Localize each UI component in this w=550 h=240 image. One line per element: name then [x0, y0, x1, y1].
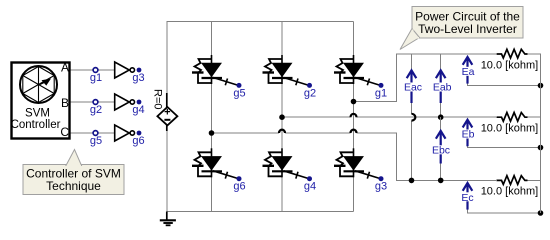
- svg-text:g6: g6: [233, 181, 245, 193]
- node Eac to phase C: [409, 178, 415, 184]
- leg 3 wire: [353, 22, 355, 212]
- phase A wire from leg 3: [354, 54, 497, 102]
- leg 2 wire: [281, 22, 283, 212]
- voltmeter Eac arrow: [407, 70, 417, 103]
- inverter gate row C: [115, 125, 135, 141]
- svg-text:Technique: Technique: [46, 179, 101, 193]
- phase B wire from leg 2: [282, 116, 496, 118]
- svg-text:Ebc: Ebc: [432, 144, 450, 156]
- node Ec return: [538, 210, 544, 216]
- svg-text:g5: g5: [233, 87, 245, 99]
- svg-text:R=0: R=0: [152, 89, 164, 110]
- voltmeter Eab wire: [440, 54, 442, 117]
- wire hop phase B over leg 3: [351, 114, 357, 117]
- bottom dc bus wire: [167, 211, 354, 213]
- node Ebc to phase C: [438, 178, 444, 184]
- switch Q3 gate g1: [334, 55, 387, 99]
- phase B wire resistor lead: [524, 116, 541, 118]
- voltmeter Ea wire: [468, 80, 542, 86]
- node g5: [90, 131, 102, 147]
- callout controller of SVM technique: [23, 150, 124, 195]
- right rail wire: [540, 54, 542, 213]
- svg-text:Controller: Controller: [11, 119, 61, 131]
- svg-text:Eb: Eb: [462, 129, 475, 141]
- svg-text:10.0 [kohm]: 10.0 [kohm]: [481, 186, 538, 198]
- svg-text:g1: g1: [375, 87, 387, 99]
- svg-text:g2: g2: [304, 87, 316, 99]
- node leg2 midpoint: [279, 114, 285, 120]
- wire hop phase C over leg 2: [279, 130, 285, 133]
- phase C wire resistor lead: [524, 179, 541, 181]
- voltmeter Eb arrow: [463, 120, 473, 147]
- voltmeter Ebc arrow: [436, 131, 446, 164]
- wire B from controller port: [70, 101, 115, 103]
- svg-text:C: C: [60, 125, 69, 139]
- node g6: [132, 131, 144, 147]
- node leg1 midpoint: [209, 130, 215, 136]
- node Ea return: [538, 83, 544, 89]
- svg-text:g6: g6: [132, 135, 144, 147]
- svg-text:Ec: Ec: [461, 192, 473, 204]
- svg-text:g4: g4: [132, 104, 144, 116]
- node g4: [132, 100, 144, 116]
- svg-text:SVM: SVM: [25, 108, 50, 120]
- svg-text:Ea: Ea: [462, 66, 475, 78]
- wire hop phase C over leg 3: [351, 130, 357, 133]
- svg-text:A: A: [61, 61, 69, 75]
- svg-text:g2: g2: [90, 104, 102, 116]
- resistor R1 10.0 kohm: [481, 49, 538, 71]
- phase C wire from leg 1: [212, 133, 497, 180]
- svg-text:+: +: [164, 107, 170, 119]
- voltmeter Ec arrow: [463, 183, 473, 210]
- svg-text:10.0 [kohm]: 10.0 [kohm]: [481, 122, 538, 134]
- wire A from controller port: [70, 69, 115, 71]
- svg-text:g5: g5: [90, 135, 102, 147]
- node Eab to phase B: [438, 114, 444, 120]
- node Eb return: [538, 145, 544, 151]
- svg-text:Eac: Eac: [404, 82, 422, 94]
- left rail wire upper: [166, 21, 168, 96]
- node g1: [90, 68, 102, 84]
- switch Q4 gate g6: [192, 148, 246, 192]
- switch Q2 gate g2: [263, 55, 317, 99]
- voltmeter Ec wire: [468, 208, 542, 213]
- svg-text:g3: g3: [375, 181, 387, 193]
- top dc bus wire: [167, 21, 354, 23]
- dc voltage source V1: [152, 89, 178, 131]
- switch Q6 gate g3: [334, 148, 387, 192]
- switch Q5 gate g4: [263, 148, 317, 192]
- node g2: [90, 100, 102, 116]
- wire C from controller port: [70, 132, 115, 134]
- callout power circuit of the two-level inverter: [400, 7, 523, 50]
- svg-text:g3: g3: [132, 72, 144, 84]
- switch Q1 gate g5: [192, 55, 246, 99]
- svg-text:B: B: [61, 96, 69, 110]
- voltmeter Eb wire: [468, 143, 542, 148]
- leg 1 wire: [211, 22, 213, 212]
- inverter gate row A: [115, 62, 135, 78]
- svg-text:g1: g1: [90, 72, 102, 84]
- node g3: [132, 68, 144, 84]
- svg-text:Two-Level Inverter: Two-Level Inverter: [418, 22, 517, 36]
- node leg3 midpoint: [351, 99, 357, 105]
- left rail wire lower: [166, 129, 168, 212]
- svg-text:g4: g4: [304, 181, 316, 193]
- voltmeter Ebc wire: [440, 117, 442, 180]
- voltmeter Ea arrow: [463, 57, 473, 84]
- SVM controller block U1: [11, 63, 70, 139]
- svg-text:10.0 [kohm]: 10.0 [kohm]: [481, 59, 538, 71]
- voltmeter Eac wire: [411, 54, 413, 180]
- resistor R2 10.0 kohm: [481, 113, 538, 135]
- ground: [160, 212, 176, 226]
- phase A wire resistor lead: [524, 53, 541, 55]
- resistor R3 10.0 kohm: [481, 176, 538, 198]
- wire hop Eac over phase B: [412, 114, 416, 121]
- svg-text:Eab: Eab: [433, 82, 452, 94]
- voltmeter Eab arrow: [436, 70, 446, 103]
- inverter gate row B: [115, 94, 135, 110]
